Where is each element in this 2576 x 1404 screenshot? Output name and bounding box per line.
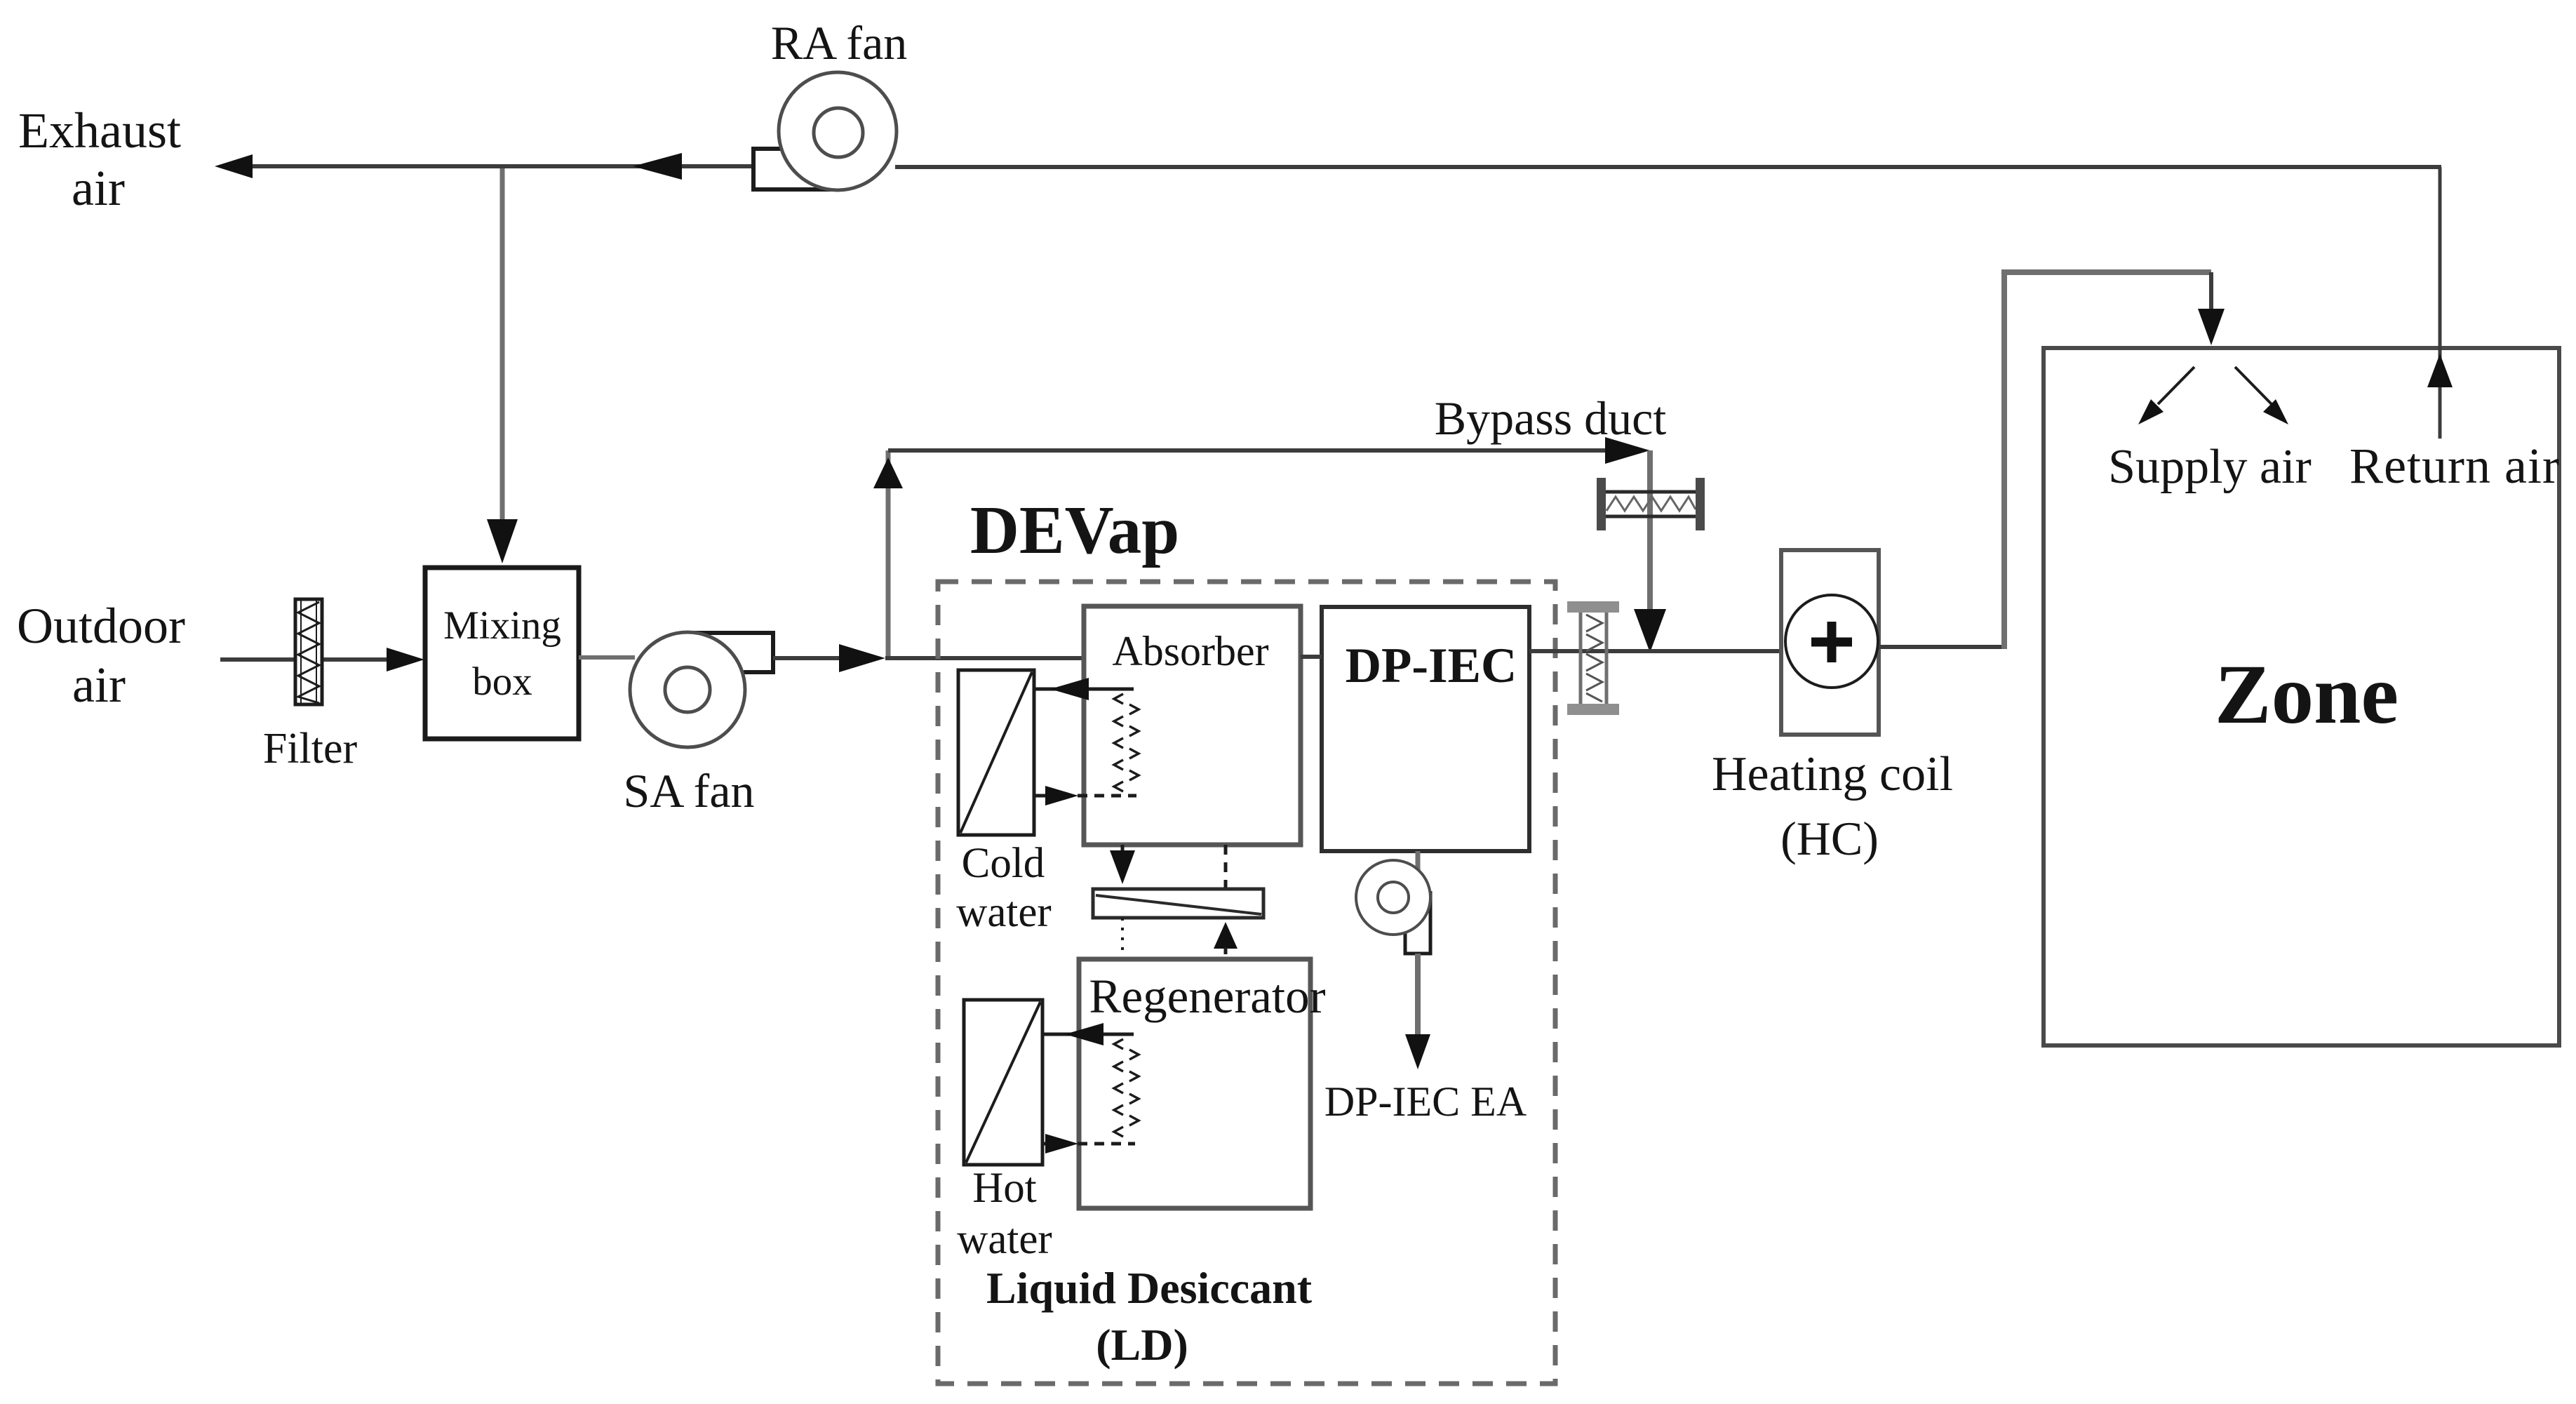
wire cold HX to absorber (lower): [1034, 794, 1061, 798]
fan RA fan scroll circle: [779, 72, 897, 190]
wire bypass duct horizontal: [888, 448, 1621, 453]
heat exchanger cold water: [958, 670, 1034, 835]
wire regenerator to hot HX (upper): [1042, 1033, 1134, 1036]
wire supply top run: [2001, 269, 2211, 275]
arrowhead supply into zone: [2198, 309, 2225, 345]
label Exhaust air: [18, 102, 181, 216]
svg-text:Exhaust: Exhaust: [18, 102, 181, 159]
wire LD HX to regenerator (dotted, left): [1121, 918, 1124, 959]
arrowhead DP-IEC EA: [1405, 1034, 1430, 1069]
wire absorber to DP-IEC: [1301, 655, 1322, 659]
svg-text:Bypass duct: Bypass duct: [1435, 392, 1667, 445]
label Mixing box: [443, 603, 561, 704]
zone box: [2044, 348, 2559, 1045]
heat exchanger hot water: [964, 1000, 1042, 1165]
heating coil circle: [1785, 595, 1878, 688]
filter element: [295, 599, 322, 704]
arrowhead exhaust mid flow: [633, 153, 682, 180]
fan DP-IEC exhaust fan hub: [1378, 882, 1409, 913]
wire DP-IEC to heating coil: [1529, 649, 1781, 653]
wire absorber to cold HX (upper): [1034, 688, 1134, 691]
svg-text:water: water: [957, 1216, 1052, 1263]
arrowhead into regenerator media: [1045, 1134, 1078, 1154]
arrowhead bypass into main duct: [1634, 609, 1666, 653]
svg-text:(HC): (HC): [1780, 812, 1879, 865]
wire SA fan to absorber: [773, 656, 852, 660]
wire bypass drop: [1647, 450, 1653, 624]
DP-IEC box: [1322, 607, 1529, 851]
arrowhead down into LD HX: [1110, 850, 1135, 884]
svg-text:Filter: Filter: [263, 725, 358, 773]
svg-text:Hot: Hot: [972, 1165, 1037, 1212]
fan RA fan housing: [753, 149, 844, 189]
arrowhead to hot HX: [1065, 1023, 1103, 1045]
mixing box: [425, 568, 579, 739]
supply diffuser arrow right: [2235, 367, 2288, 424]
fan SA fan scroll circle: [630, 632, 745, 747]
arrowhead return up: [2427, 354, 2453, 387]
svg-text:Supply air: Supply air: [2108, 440, 2312, 494]
DEVap dashed enclosure (LD unit): [938, 582, 1555, 1384]
wire return air riser: [2439, 167, 2442, 439]
fan DP-IEC exhaust fan scroll circle: [1356, 860, 1430, 935]
arrowhead up into LD HX: [1214, 922, 1237, 949]
wire bypass riser: [886, 450, 891, 656]
arrowhead bypass right: [1605, 437, 1650, 464]
wire supply drop into zone: [2209, 272, 2213, 317]
wire absorber return (dashed, right): [1224, 845, 1228, 889]
arrowhead into mixing box: [487, 519, 518, 563]
heating coil plus: [1811, 622, 1852, 662]
svg-text:Absorber: Absorber: [1112, 628, 1268, 674]
fan DP-IEC exhaust fan housing: [1405, 891, 1430, 954]
arrowhead supply flow before DEVap: [839, 644, 885, 672]
heat exchanger liquid desiccant interchange: [1093, 889, 1263, 918]
label Heating coil (HC): [1712, 747, 1953, 865]
wire DP-IEC exhaust: [1415, 954, 1421, 1038]
svg-text:Heating coil: Heating coil: [1712, 747, 1953, 801]
arrowhead bypass up: [873, 457, 903, 488]
label Liquid Desiccant (LD): [986, 1263, 1313, 1370]
fan RA fan hub: [814, 108, 863, 157]
fan SA fan hub: [665, 667, 710, 712]
svg-text:air: air: [72, 657, 126, 713]
wire recirculation branch down to mixing box: [500, 168, 505, 535]
fan SA fan housing: [684, 633, 773, 672]
label Cold water: [956, 840, 1051, 936]
wire heating coil to supply riser: [1879, 645, 2006, 649]
svg-text:DP-IEC: DP-IEC: [1346, 639, 1517, 693]
svg-text:Mixing: Mixing: [443, 603, 561, 648]
wire mixing box to SA fan: [579, 655, 635, 660]
supply diffuser arrow left: [2138, 367, 2194, 424]
svg-text:DP-IEC EA: DP-IEC EA: [1324, 1078, 1527, 1125]
svg-text:Liquid Desiccant: Liquid Desiccant: [986, 1263, 1313, 1313]
svg-text:Outdoor: Outdoor: [17, 598, 185, 654]
svg-text:RA fan: RA fan: [771, 16, 908, 69]
wire outdoor air inlet: [220, 657, 393, 662]
svg-text:Zone: Zone: [2215, 648, 2399, 742]
svg-text:Return air: Return air: [2349, 438, 2560, 494]
arrowhead to cold HX: [1050, 678, 1089, 700]
wire supply riser: [2001, 272, 2007, 649]
svg-text:Regenerator: Regenerator: [1089, 970, 1325, 1023]
absorber box: [1084, 606, 1301, 845]
heating coil box: [1781, 550, 1879, 735]
svg-text:Cold: Cold: [962, 840, 1045, 887]
svg-text:air: air: [72, 160, 125, 216]
fan DP-IEC exhaust fan stem: [1416, 851, 1421, 870]
arrowhead exhaust out: [215, 154, 253, 178]
svg-text:DEVap: DEVap: [970, 493, 1179, 568]
svg-text:box: box: [472, 660, 532, 704]
svg-text:(LD): (LD): [1096, 1320, 1188, 1370]
damper supply (vertical): [1567, 601, 1619, 715]
arrowhead into absorber media: [1045, 786, 1078, 805]
label Outdoor air: [17, 598, 185, 713]
wire exhaust-air top duct: [247, 166, 2441, 167]
label Hot water: [957, 1165, 1052, 1263]
regenerator media zipper: [1114, 1039, 1139, 1137]
wire hot HX to regenerator (lower): [1042, 1142, 1061, 1146]
arrowhead into mixing box inlet: [387, 648, 424, 671]
wire absorber drain (dashed, left): [1121, 845, 1125, 862]
svg-text:SA fan: SA fan: [624, 764, 755, 817]
damper bypass (horizontal): [1597, 478, 1705, 530]
absorber media zipper: [1114, 694, 1139, 791]
svg-text:water: water: [956, 889, 1051, 936]
regenerator box: [1079, 959, 1310, 1208]
wire regenerator to LD HX (dashed, right): [1224, 947, 1228, 959]
